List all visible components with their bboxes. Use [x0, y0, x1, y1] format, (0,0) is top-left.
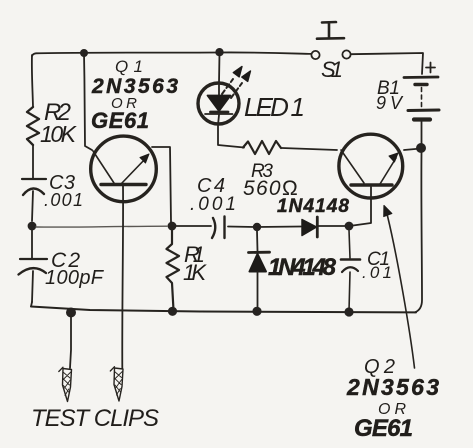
wire junction to C2	[31, 230, 33, 259]
wire Q1 feed vertical	[84, 53, 92, 150]
node D2 top junction	[253, 223, 261, 231]
switch S1	[311, 51, 319, 59]
pointer line to Q2 label	[388, 216, 415, 368]
capacitor C4	[212, 217, 225, 239]
wire Q2 collector to battery node	[404, 149, 421, 151]
wire middle rail to C4	[176, 225, 211, 227]
node LED feed junction	[215, 48, 223, 56]
node battery / Q2 collector junction	[416, 143, 426, 153]
diode D1 1N4148 series	[302, 220, 317, 236]
svg-text:10K: 10K	[40, 121, 78, 147]
diode D2 1N4148 shunt	[256, 231, 259, 251]
wire Q2 base L to middle rail	[353, 187, 371, 226]
node test clip 1 junction	[66, 308, 76, 318]
wire middle rail left	[36, 225, 167, 228]
node C1 bottom junction	[344, 307, 353, 316]
LED1 emission arrows	[222, 79, 233, 94]
node D2 bottom junction	[252, 307, 261, 316]
resistor R1	[167, 226, 180, 310]
svg-text:S1: S1	[321, 57, 343, 82]
node R1 bottom junction	[168, 307, 177, 316]
wire Q1 collector to middle rail	[152, 147, 171, 222]
svg-text:100pF: 100pF	[45, 267, 105, 289]
transistor Q1	[91, 136, 157, 202]
wire LED1 cathode to R3	[218, 126, 244, 148]
node Q1 collector / R1 junction	[168, 222, 177, 231]
svg-text:1N4148: 1N4148	[268, 254, 337, 281]
wire D1 to node	[318, 225, 348, 227]
battery plus sign	[426, 63, 435, 73]
capacitor C2	[20, 258, 47, 260]
transistor Q1 internals	[93, 151, 114, 183]
wire bottom rail	[31, 307, 416, 313]
wire middle rail C4 to D1	[228, 226, 301, 229]
wire Q1 base to test clip 2	[121, 186, 124, 368]
svg-text:.01: .01	[362, 263, 392, 282]
svg-text:.001: .001	[44, 190, 83, 210]
node Q2 base / C1 junction	[345, 222, 354, 231]
node left middle junction	[28, 222, 37, 231]
svg-text:GE61: GE61	[354, 415, 415, 442]
svg-text:GE61: GE61	[91, 108, 151, 133]
svg-text:TEST CLIPS: TEST CLIPS	[31, 405, 159, 432]
svg-text:LED 1: LED 1	[244, 92, 305, 122]
wire R3 to Q2	[282, 148, 337, 150]
wire left bottom corner	[31, 302, 32, 307]
transistor Q2 internals	[341, 150, 364, 183]
wire LED feed	[218, 53, 221, 83]
resistor R3	[243, 141, 281, 154]
resistor R2	[27, 107, 39, 145]
test clip 2	[114, 368, 123, 401]
svg-text:1N4148: 1N4148	[277, 196, 349, 217]
svg-text:1K: 1K	[183, 260, 207, 285]
capacitor C3	[22, 178, 46, 180]
wire left vertical upper	[32, 55, 33, 107]
node top-left Q1 feed junction	[80, 49, 88, 57]
wire right vertical	[415, 153, 422, 312]
wire S1 to battery corner	[351, 53, 423, 74]
wire R2 to C3	[32, 145, 34, 179]
test clip 1	[70, 315, 71, 368]
svg-text:9V: 9V	[376, 93, 404, 113]
capacitor C1	[349, 230, 350, 258]
transistor Q2	[339, 134, 403, 198]
wire top rail	[32, 52, 311, 56]
battery B1	[404, 76, 438, 79]
LED LED1	[198, 83, 239, 124]
